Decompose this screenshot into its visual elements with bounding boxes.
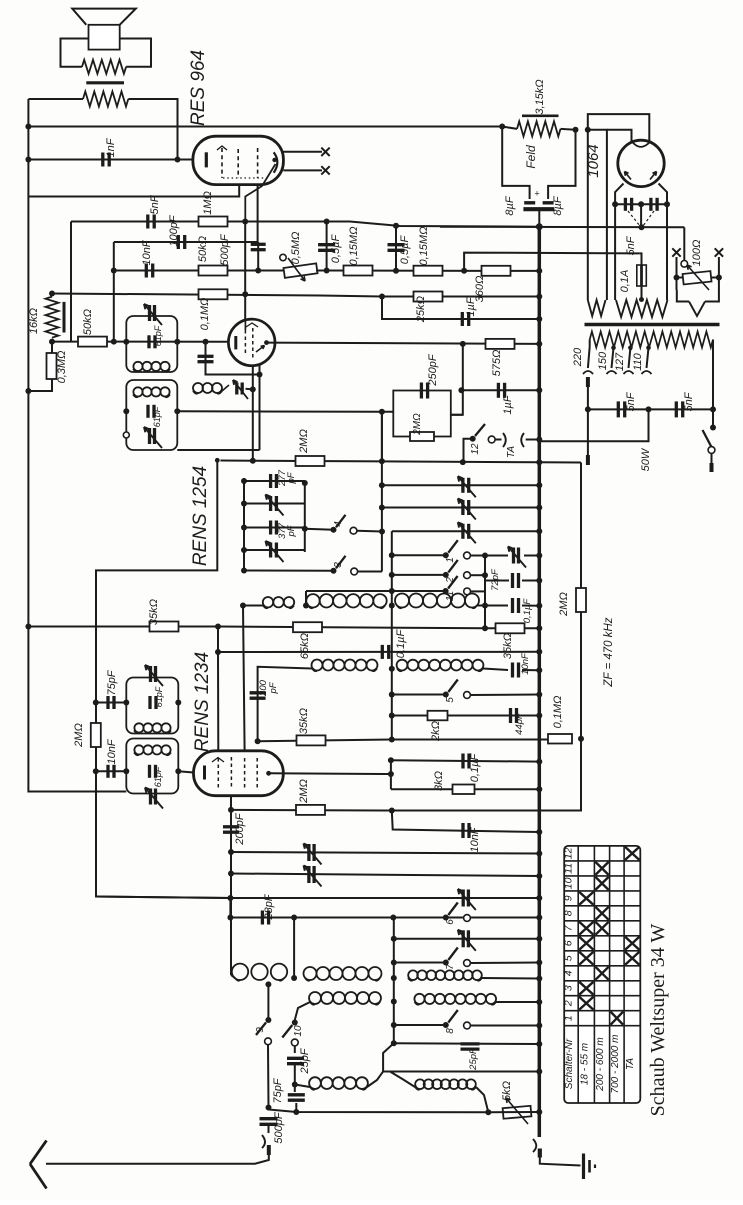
node <box>379 458 385 464</box>
wire grid3 RENS1234 <box>243 606 245 751</box>
resistor 2MOhm AF grid <box>296 429 325 466</box>
capacitor 72pF <box>485 568 542 591</box>
svg-text:2MΩ: 2MΩ <box>298 429 310 454</box>
node <box>266 1105 272 1111</box>
wire antenna row <box>269 1108 489 1113</box>
node <box>536 387 542 393</box>
node <box>25 157 31 163</box>
svg-text:220: 220 <box>572 347 584 367</box>
switch 6 <box>443 903 471 925</box>
capacitor 75pF antenna <box>272 1077 305 1115</box>
speaker frame with field winding <box>61 39 152 74</box>
capacitor 10nF osc <box>106 738 118 778</box>
capacitor 25pF band <box>461 1041 543 1071</box>
svg-text:6: 6 <box>563 940 575 946</box>
capacitor 0.5uF <box>318 222 342 271</box>
node <box>227 895 233 901</box>
wire <box>177 410 393 413</box>
wire varcap row a <box>231 852 539 854</box>
variable capacitor d <box>462 930 465 947</box>
field coil Feld <box>502 127 575 200</box>
capacitor 250pF with 2MOhm <box>393 353 463 441</box>
wire oscillator section link <box>305 591 307 606</box>
node <box>536 437 542 443</box>
svg-text:1064: 1064 <box>585 144 602 177</box>
tube 1064 anode feed <box>588 114 650 300</box>
terminal x <box>321 148 329 156</box>
node <box>536 829 542 835</box>
HT bus wire <box>538 227 542 1137</box>
wire varcap row 3 <box>392 530 540 532</box>
wire varcap row d <box>391 936 540 942</box>
svg-text:2MΩ: 2MΩ <box>73 723 85 748</box>
terminal x <box>715 248 723 256</box>
node <box>393 268 399 274</box>
wire 5nF row <box>71 222 539 342</box>
svg-text:25pF: 25pF <box>299 1047 311 1074</box>
wire to fuse row <box>464 253 639 271</box>
switch 11 <box>306 576 485 601</box>
node <box>664 201 670 207</box>
svg-text:0,1A: 0,1A <box>619 270 631 293</box>
node <box>93 768 99 774</box>
variable capacitor b <box>307 866 310 883</box>
node <box>228 807 234 813</box>
svg-text:0,15MΩ: 0,15MΩ <box>418 227 430 266</box>
switch 7 <box>391 948 543 970</box>
oscillator coil row 2 <box>295 992 543 1020</box>
trimmer capacitor 377 <box>241 541 305 562</box>
node <box>215 649 221 655</box>
wire rectifier cathode leads <box>615 184 667 205</box>
capacitor 200pF <box>250 679 279 741</box>
wire switch output rail <box>484 556 486 629</box>
switch 3 <box>241 556 382 575</box>
wire row 898 <box>96 897 539 899</box>
capacitor 75pF <box>106 669 118 709</box>
node HT bus start <box>536 223 543 230</box>
node <box>482 553 488 559</box>
svg-text:10: 10 <box>563 877 575 889</box>
node <box>215 624 221 630</box>
svg-text:2: 2 <box>563 1000 575 1007</box>
node <box>573 127 579 133</box>
node <box>536 316 542 322</box>
svg-text:61pF: 61pF <box>154 686 164 707</box>
trimmer block rail <box>244 478 305 571</box>
svg-text:1: 1 <box>563 1015 575 1021</box>
trimmer capacitor oscillator <box>233 380 256 399</box>
node <box>536 915 542 921</box>
svg-text:1µF: 1µF <box>502 394 514 414</box>
tap 110 <box>632 345 652 374</box>
wire mixer rail <box>390 760 392 789</box>
node <box>25 624 31 630</box>
svg-text:5nF: 5nF <box>149 194 161 214</box>
node <box>388 757 394 763</box>
node <box>379 529 385 535</box>
wire bottom rail <box>393 918 395 1044</box>
node <box>49 339 55 345</box>
node <box>242 291 248 297</box>
wire tuning row <box>52 341 228 343</box>
svg-text:50W: 50W <box>640 447 652 471</box>
choke core bar <box>63 302 66 333</box>
wire 75pF row <box>96 702 127 704</box>
node <box>536 505 542 511</box>
svg-text:5: 5 <box>563 955 575 961</box>
tube triode oscillator <box>228 319 275 366</box>
wire varcap row b <box>231 874 539 877</box>
svg-text:0,1µF: 0,1µF <box>522 598 533 624</box>
terminal x <box>321 166 329 174</box>
IF coil row 1 <box>240 594 542 624</box>
svg-text:4: 4 <box>333 521 344 527</box>
switch 2 <box>389 560 485 584</box>
svg-text:10nF: 10nF <box>520 652 531 675</box>
svg-text:1nF: 1nF <box>105 137 117 157</box>
capacitor 1nF <box>28 137 193 166</box>
transformer core <box>585 323 720 327</box>
switch 5 <box>389 680 543 703</box>
resistor 35kOhm grid <box>297 708 326 745</box>
capacitor 5nF <box>148 194 161 228</box>
wire <box>113 242 115 342</box>
node <box>536 1069 542 1075</box>
wire grid bus <box>28 126 502 128</box>
svg-text:10nF: 10nF <box>106 738 118 764</box>
wire osc row link <box>383 1043 539 1071</box>
capacitor heater right <box>649 198 652 211</box>
wire grid lead to 500pF <box>257 185 259 242</box>
wire RENS1234 cathode column <box>230 796 232 975</box>
wire 28pF row <box>230 898 539 918</box>
wire 1uF row <box>382 297 539 320</box>
capacitor 1uF AF <box>498 383 514 415</box>
svg-text:6: 6 <box>445 919 456 925</box>
svg-text:1µF: 1µF <box>465 296 477 316</box>
node <box>242 219 248 225</box>
resistor 0.1MOhm <box>199 289 228 330</box>
wire AVC row <box>231 809 581 812</box>
mains transformer heater winding 1 <box>588 300 606 316</box>
switch 4 <box>305 515 382 534</box>
node <box>203 339 209 345</box>
tap 127 <box>614 345 634 374</box>
wire 2k row <box>392 715 540 717</box>
wire <box>28 99 177 160</box>
svg-text:1: 1 <box>445 557 456 563</box>
svg-text:12: 12 <box>470 443 481 455</box>
node <box>227 915 233 921</box>
output transformer primary winding <box>83 92 128 107</box>
node <box>93 700 99 706</box>
wire mains cap row <box>588 408 713 410</box>
wire 10nF hook <box>392 811 540 833</box>
svg-text:18 - 55 m: 18 - 55 m <box>579 1043 590 1085</box>
resistor 0.1MOhm AGC <box>548 696 572 744</box>
transformer core <box>86 81 124 84</box>
svg-text:0,3MΩ: 0,3MΩ <box>56 351 68 384</box>
dashed links 5nF <box>625 211 654 255</box>
wire 65k continues <box>218 627 539 629</box>
wire ZF rail <box>539 463 581 811</box>
svg-text:0,1µF: 0,1µF <box>395 629 407 659</box>
node <box>111 268 117 274</box>
capacitor 200pF cathode <box>223 812 246 845</box>
wire 50k row <box>114 270 283 272</box>
variable capacitor c <box>462 890 465 907</box>
svg-text:11: 11 <box>563 863 575 874</box>
tuned circuit L3 <box>123 665 181 734</box>
node <box>228 849 234 855</box>
capacitor 1uF <box>462 296 477 326</box>
capacitor 277pF <box>241 469 308 488</box>
tuned circuit L2 with 61pF and trimmer <box>123 380 180 450</box>
svg-text:+: + <box>534 189 539 199</box>
node <box>255 268 261 274</box>
wire <box>451 344 463 415</box>
wire 1uF row <box>461 389 539 391</box>
tube RENS 1234 <box>194 751 284 796</box>
capacitor 0.1uF mixer <box>463 753 481 783</box>
node <box>389 737 395 743</box>
wire varcap row 1 <box>382 484 539 486</box>
wire chassis row <box>220 461 581 463</box>
node <box>460 341 466 347</box>
node <box>25 124 31 130</box>
svg-text:ZF = 470 kHz: ZF = 470 kHz <box>603 617 615 687</box>
resistor 3kOhm <box>433 771 475 794</box>
capacitor heater left <box>624 198 627 211</box>
wire 100pF row <box>114 241 258 243</box>
node <box>460 459 466 465</box>
ground <box>584 1154 596 1180</box>
wire triode cathode leads <box>177 365 259 461</box>
oscillator coil row 3 <box>295 1072 489 1113</box>
svg-text:9: 9 <box>563 895 575 901</box>
svg-text:200 - 600 m: 200 - 600 m <box>595 1037 606 1091</box>
svg-text:1MΩ: 1MΩ <box>202 191 214 215</box>
node <box>324 219 330 225</box>
tuned circuit L1 with trimmer and 61pF <box>123 304 180 372</box>
svg-text:8: 8 <box>445 1028 456 1034</box>
node <box>379 409 385 415</box>
node <box>389 713 395 719</box>
node <box>536 459 542 465</box>
node <box>379 294 385 300</box>
resistor 2MOhm ZF <box>558 588 586 617</box>
svg-text:500pF: 500pF <box>219 233 231 265</box>
capacitor 28pF <box>262 893 275 924</box>
svg-text:100pF: 100pF <box>168 214 180 246</box>
wire band rail <box>391 531 393 739</box>
wire tube outputs to terminals <box>283 152 322 171</box>
node <box>485 1109 491 1115</box>
resistor 2MOhm AVC <box>296 779 325 815</box>
resistor 50kOhm <box>197 236 228 276</box>
node <box>393 223 399 229</box>
svg-text:35kΩ: 35kΩ <box>148 599 160 625</box>
potentiometer 0.5MOhm <box>280 232 327 281</box>
capacitor 0.1uF IF <box>382 629 407 659</box>
node <box>536 268 542 274</box>
resistor 35kOhm screen <box>496 623 525 659</box>
resistor 25kOhm <box>414 292 443 324</box>
capacitor 100pF <box>168 214 185 249</box>
left bus wire <box>28 99 126 792</box>
resistor 360Ohm <box>474 266 511 303</box>
svg-text:RES 964: RES 964 <box>188 50 209 126</box>
svg-text:72pF: 72pF <box>490 568 501 591</box>
mains transformer primary winding <box>590 332 713 410</box>
svg-text:35kΩ: 35kΩ <box>298 708 310 734</box>
svg-text:0,1MΩ: 0,1MΩ <box>199 298 211 331</box>
node <box>536 482 542 488</box>
switch 12 and TA jack <box>464 424 540 462</box>
wire cathode link <box>178 771 193 772</box>
switch table Schalter-Nr <box>563 846 641 1103</box>
svg-text:61pF: 61pF <box>153 766 163 787</box>
svg-text:35kΩ: 35kΩ <box>502 633 514 659</box>
loudspeaker <box>72 9 136 50</box>
wire grid lead triode <box>244 222 246 320</box>
node <box>379 505 385 511</box>
node <box>536 528 542 534</box>
node <box>391 1040 397 1046</box>
node <box>461 268 467 274</box>
svg-text:61pF: 61pF <box>152 406 162 427</box>
svg-text:pF: pF <box>286 524 297 537</box>
node <box>612 201 618 207</box>
node <box>585 127 591 133</box>
resistor 1MOhm <box>199 191 228 226</box>
svg-text:575Ω: 575Ω <box>491 350 503 377</box>
svg-text:12: 12 <box>563 847 575 859</box>
svg-text:3kΩ: 3kΩ <box>433 771 445 791</box>
node <box>536 759 542 765</box>
svg-text:2MΩ: 2MΩ <box>558 592 570 617</box>
wire screen row <box>327 270 540 272</box>
tap 220 <box>572 347 593 465</box>
svg-text:0,15MΩ: 0,15MΩ <box>348 227 360 266</box>
node <box>499 124 505 130</box>
node <box>255 738 261 744</box>
wire grid1 RENS1234 <box>217 652 219 751</box>
resistor 50kOhm antenna <box>78 309 107 347</box>
svg-text:75pF: 75pF <box>272 1077 284 1103</box>
svg-text:200pF: 200pF <box>234 812 246 845</box>
wire 65k row <box>28 627 539 653</box>
capacitor 44pF <box>511 708 543 735</box>
svg-text:250pF: 250pF <box>427 353 439 386</box>
node <box>536 873 542 879</box>
svg-text:28pF: 28pF <box>263 893 275 920</box>
svg-text:5nF: 5nF <box>625 235 637 255</box>
wire triode anode <box>267 343 540 344</box>
svg-text:700 - 2000 m: 700 - 2000 m <box>610 1035 621 1094</box>
tube 1064 <box>585 140 664 186</box>
resistor 65kOhm <box>293 622 322 659</box>
svg-text:Schalter-Nr: Schalter-Nr <box>564 1038 575 1089</box>
capacitor 5nF mains right <box>676 391 695 417</box>
svg-text:pF: pF <box>268 681 279 694</box>
variable capacitor tuning 3 <box>461 524 464 539</box>
capacitor 500pF <box>219 233 266 270</box>
capacitor 377pF <box>241 521 308 539</box>
switch 8 <box>391 1010 543 1034</box>
variable capacitor tuning 1 <box>461 478 464 493</box>
output jack <box>533 1139 581 1166</box>
node <box>228 871 234 877</box>
node <box>536 625 542 631</box>
wire rectifier heater left <box>587 130 589 300</box>
wire varcap rail <box>381 412 383 572</box>
resistor 2MOhm grid <box>73 723 101 748</box>
svg-text:50kΩ: 50kΩ <box>82 309 94 335</box>
node <box>388 771 394 777</box>
svg-text:25pF: 25pF <box>468 1047 479 1071</box>
antenna arrow <box>30 1141 47 1189</box>
svg-text:TA: TA <box>625 1058 636 1070</box>
wire <box>381 412 383 462</box>
svg-text:8µF: 8µF <box>552 195 564 215</box>
node <box>646 406 652 412</box>
node <box>291 915 297 921</box>
svg-text:5: 5 <box>445 697 456 703</box>
mains switch <box>703 409 717 472</box>
wire 3k row <box>391 788 539 790</box>
svg-text:RENS 1254: RENS 1254 <box>190 466 211 566</box>
svg-text:0,5µF: 0,5µF <box>330 234 342 264</box>
node <box>536 895 542 901</box>
capacitor 500pF antenna <box>260 1111 286 1143</box>
wire varcap row 2 <box>382 507 539 509</box>
node <box>585 406 591 412</box>
tuned circuit L4 <box>123 739 181 809</box>
antenna jack <box>46 1135 269 1164</box>
wire heater windings <box>615 204 667 300</box>
switch 1 <box>389 540 485 563</box>
node <box>638 201 644 207</box>
svg-text:110: 110 <box>632 352 644 370</box>
svg-text:2MΩ: 2MΩ <box>298 779 310 804</box>
svg-text:50kΩ: 50kΩ <box>197 236 209 262</box>
svg-text:7: 7 <box>445 964 456 970</box>
oscillator coil <box>193 383 229 394</box>
svg-text:TA: TA <box>506 446 517 458</box>
node <box>458 387 464 393</box>
svg-text:Schaub Weltsuper 34 W: Schaub Weltsuper 34 W <box>647 924 669 1117</box>
node <box>710 406 716 412</box>
node <box>482 625 488 631</box>
wire grid2 lead <box>28 185 239 197</box>
tap 150 <box>597 345 617 374</box>
variable capacitor tuning 2 <box>461 500 464 515</box>
node <box>536 936 542 942</box>
svg-text:5kΩ: 5kΩ <box>501 1081 513 1101</box>
switch 10 <box>282 1020 304 1054</box>
svg-text:5nF: 5nF <box>683 391 695 411</box>
capacitor 25pF osc <box>287 1047 311 1087</box>
tube RES 964 <box>193 136 284 221</box>
resistor 3.15kOhm <box>502 79 575 136</box>
svg-text:500pF: 500pF <box>273 1111 285 1143</box>
svg-text:5nF: 5nF <box>625 391 637 411</box>
wire 10nF row <box>96 770 127 772</box>
svg-text:0,5µF: 0,5µF <box>399 235 411 265</box>
capacitor 8uF double electrolytic <box>504 195 564 227</box>
